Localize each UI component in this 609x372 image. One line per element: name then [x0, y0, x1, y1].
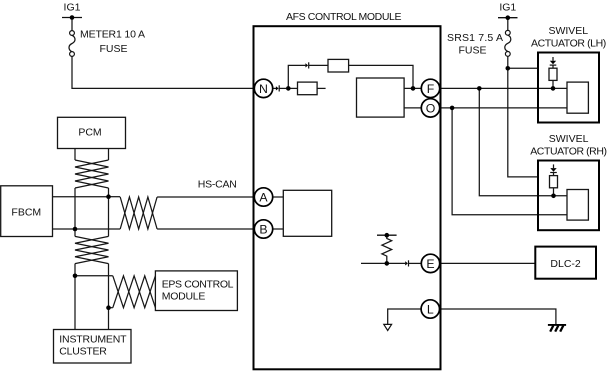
svg-text:AFS CONTROL MODULE: AFS CONTROL MODULE — [286, 11, 402, 23]
svg-text:SWIVEL: SWIVEL — [548, 25, 588, 37]
svg-text:FBCM: FBCM — [11, 206, 41, 218]
svg-text:FUSE: FUSE — [458, 44, 486, 56]
svg-text:A: A — [259, 190, 268, 204]
svg-text:EPS CONTROL: EPS CONTROL — [162, 279, 234, 291]
svg-text:INSTRUMENT: INSTRUMENT — [59, 333, 127, 345]
svg-text:ACTUATOR (RH): ACTUATOR (RH) — [530, 146, 607, 158]
svg-text:DLC-2: DLC-2 — [550, 258, 581, 270]
svg-text:IG1: IG1 — [64, 2, 81, 14]
svg-text:METER1 10 A: METER1 10 A — [80, 29, 145, 41]
svg-text:MODULE: MODULE — [162, 290, 206, 302]
svg-text:IG1: IG1 — [499, 2, 516, 14]
svg-text:FUSE: FUSE — [99, 43, 127, 55]
svg-text:O: O — [426, 101, 436, 115]
svg-text:B: B — [259, 222, 267, 236]
svg-text:E: E — [426, 257, 434, 271]
svg-text:PCM: PCM — [78, 127, 101, 139]
svg-text:ACTUATOR (LH): ACTUATOR (LH) — [531, 37, 606, 49]
svg-text:L: L — [427, 302, 434, 316]
svg-text:N: N — [259, 82, 268, 96]
svg-text:SRS1 7.5 A: SRS1 7.5 A — [447, 32, 503, 44]
svg-text:SWIVEL: SWIVEL — [549, 133, 589, 145]
svg-text:CLUSTER: CLUSTER — [59, 346, 107, 358]
svg-text:F: F — [427, 82, 435, 96]
svg-text:HS-CAN: HS-CAN — [198, 179, 237, 191]
